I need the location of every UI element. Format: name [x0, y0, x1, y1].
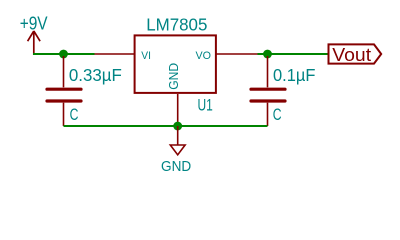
svg-text:VO: VO	[196, 50, 212, 62]
ground symbol triangle	[170, 145, 185, 155]
capacitor C2 plates (0.1uF)	[251, 89, 285, 101]
capacitor C1 bottom pin wire	[63, 103, 65, 126]
ground stub wire	[177, 126, 179, 145]
capacitor C2 bottom pin wire	[267, 103, 269, 126]
wire from VO pin to Vout flag	[258, 53, 329, 55]
svg-text:LM7805: LM7805	[146, 15, 207, 35]
capacitor C1 plates (0.33uF)	[47, 89, 81, 101]
wire from +9V to VI pin	[33, 53, 95, 55]
bottom ground rail wire	[64, 125, 268, 127]
svg-text:U1: U1	[198, 95, 213, 114]
capacitor C2 top pin wire	[267, 56, 269, 87]
capacitor C1 top pin wire	[63, 56, 65, 87]
regulator U1 GND pin wire	[177, 94, 179, 126]
regulator U1 body LM7805	[135, 35, 216, 93]
svg-text:0.33µF: 0.33µF	[69, 65, 122, 85]
svg-text:C: C	[70, 106, 79, 124]
svg-text:GND: GND	[167, 63, 181, 90]
hierarchical label flag Vout	[329, 44, 382, 63]
power symbol +9V arrow	[28, 31, 40, 55]
svg-text:0.1µF: 0.1µF	[273, 65, 316, 85]
node junction dot bottom	[173, 122, 182, 131]
svg-text:VI: VI	[141, 50, 151, 62]
node junction dot left	[59, 50, 68, 59]
node junction dot right	[263, 50, 272, 59]
regulator U1 VO pin wire	[216, 53, 258, 55]
svg-text:+9V: +9V	[20, 13, 48, 34]
svg-text:Vout: Vout	[332, 44, 371, 65]
op-amp/regulator U1 VI pin wire	[95, 53, 135, 55]
svg-text:GND: GND	[161, 159, 191, 175]
svg-text:C: C	[273, 106, 282, 124]
